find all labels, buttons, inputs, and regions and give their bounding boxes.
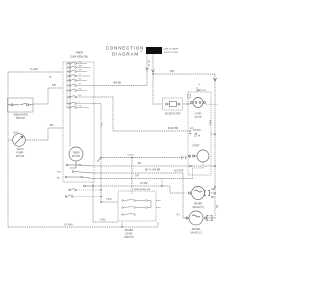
svg-text:(CAM VIEW ON): (CAM VIEW ON) [70, 56, 88, 59]
svg-text:WASH: WASH [17, 148, 24, 151]
svg-text:VALVE (C): VALVE (C) [190, 232, 202, 235]
cold water valve [186, 211, 212, 225]
timer cam bus [69, 62, 71, 147]
svg-text:GY: GY [177, 214, 181, 217]
unbalance switch box [8, 98, 34, 112]
pump motor [13, 134, 26, 147]
pressure exits [156, 200, 161, 202]
wire WH horizontal to right edge [153, 73, 215, 75]
start switch circle [189, 150, 210, 162]
svg-text:SUPPLY CORD: SUPPLY CORD [164, 52, 179, 54]
svg-text:2 SPD: 2 SPD [195, 114, 202, 116]
svg-text:GY/T: GY/T [13, 132, 19, 135]
wire T-BU to pressure switch [101, 201, 118, 203]
wire bottom [8, 222, 158, 227]
wire left boundary [7, 72, 9, 227]
motor box [188, 92, 211, 175]
wire MAIN BK staircase [93, 97, 188, 131]
connector chevrons [146, 68, 155, 73]
hot water valve [188, 187, 209, 200]
title CONNECTION DIAGRAM [106, 46, 145, 57]
svg-text:WH-BK: WH-BK [113, 82, 122, 85]
wire BK-YL/GN-BR to cold valve [93, 173, 187, 218]
noise filter box [163, 98, 183, 110]
wire right-edge vertical [208, 74, 215, 218]
wire OR [93, 178, 193, 180]
timer contacts [67, 62, 94, 109]
wire to noise filter [153, 74, 163, 104]
svg-text:LINE VOLTAGE: LINE VOLTAGE [164, 48, 179, 51]
svg-text:AGITATE: AGITATE [174, 170, 184, 173]
svg-text:GY-BK: GY-BK [140, 182, 148, 185]
svg-text:CONNECTION: CONNECTION [106, 46, 145, 51]
wire BU [93, 165, 215, 167]
motor internal text [189, 114, 202, 160]
connector bracket [182, 156, 186, 159]
lower timer contacts [65, 164, 93, 187]
svg-text:BU: BU [138, 162, 142, 165]
wire drop to pressure box [131, 158, 133, 195]
lower contacts below timer [65, 188, 101, 197]
svg-text:TIMER: TIMER [75, 52, 83, 55]
wire BU staircase to pressure switch [93, 104, 101, 203]
svg-text:GY-BU: GY-BU [127, 155, 134, 157]
svg-text:SWITCH: SWITCH [16, 117, 26, 120]
svg-text:BK: BK [211, 196, 215, 199]
wire WH from supply down [152, 54, 154, 74]
wire filter to motor [183, 103, 192, 105]
svg-text:PUMP: PUMP [17, 153, 24, 155]
timer box [63, 62, 94, 182]
labels YL BK above motor [198, 84, 201, 92]
svg-text:V-BU: V-BU [100, 219, 106, 222]
svg-text:GY-WH: GY-WH [64, 224, 73, 227]
svg-text:BK-YL/GN-BR: BK-YL/GN-BR [145, 169, 161, 172]
wire GY-BK to hot valve [93, 186, 185, 193]
svg-text:DIAGRAM: DIAGRAM [112, 52, 139, 57]
svg-text:1/2 HP: 1/2 HP [194, 117, 201, 119]
timer title [70, 52, 88, 59]
svg-text:BU: BU [49, 77, 52, 79]
svg-text:START: START [192, 145, 200, 148]
motor internal dots [189, 133, 191, 135]
svg-text:NOISE FILTER: NOISE FILTER [165, 114, 181, 116]
svg-text:WH: WH [52, 84, 56, 87]
svg-text:WH: WH [79, 66, 83, 68]
svg-text:T-BU: T-BU [106, 198, 112, 201]
svg-text:MOTOR: MOTOR [72, 156, 81, 158]
svg-text:MAIN BK: MAIN BK [168, 127, 179, 130]
svg-text:BK: BK [215, 205, 218, 209]
pressure switch box [118, 191, 156, 221]
pressure switch contacts [122, 200, 151, 216]
wire timer right edge down [93, 182, 118, 222]
wire YL-RD top left [8, 71, 63, 73]
svg-text:MOTOR: MOTOR [16, 156, 25, 158]
svg-text:BU: BU [50, 124, 54, 127]
wire WH-BK horizontal [93, 85, 147, 87]
timer motor [69, 147, 83, 161]
svg-text:WH: WH [170, 70, 174, 73]
water level label [124, 229, 134, 239]
timer wire left WH entry [33, 88, 63, 104]
pump wires [8, 139, 13, 141]
svg-text:OR: OR [211, 188, 215, 191]
svg-text:VALVE (H): VALVE (H) [192, 206, 204, 209]
line voltage supply cord (black block) [146, 47, 162, 54]
motor switch circle [191, 98, 206, 108]
svg-text:SWITCH: SWITCH [124, 236, 134, 239]
svg-text:LO HI: LO HI [194, 136, 200, 138]
svg-text:PRESSURE SW: PRESSURE SW [134, 189, 151, 191]
wire BK from supply down [146, 54, 148, 86]
svg-text:OR: OR [135, 175, 139, 178]
start loop wire [193, 162, 204, 179]
timer motor lead [75, 161, 77, 168]
shaft dashes [206, 104, 218, 106]
svg-text:TIMER: TIMER [72, 153, 79, 155]
noise filter internals [166, 102, 181, 107]
svg-text:BK WH: BK WH [193, 130, 201, 132]
svg-text:MAIN: MAIN [209, 120, 212, 126]
svg-text:BU: BU [100, 124, 102, 127]
svg-text:YL-RD: YL-RD [30, 68, 38, 71]
svg-text:WH: WH [57, 172, 61, 174]
